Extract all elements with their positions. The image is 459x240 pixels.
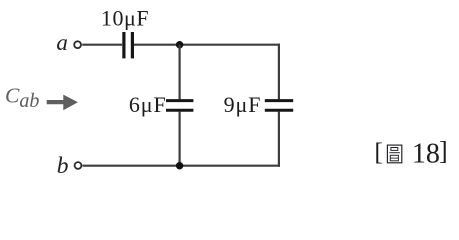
capacitor C2 6uF plates: [166, 101, 193, 111]
wire right branch lower: [278, 112, 280, 167]
terminal a: [74, 41, 81, 48]
capacitor C1 10uF plates: [124, 32, 132, 58]
svg-text:9μF: 9μF: [224, 92, 262, 117]
wire right branch upper: [278, 44, 280, 100]
svg-text:10μF: 10μF: [101, 5, 149, 30]
svg-text:]: ]: [439, 137, 448, 166]
terminal b: [75, 162, 82, 169]
node top junction: [176, 41, 183, 48]
svg-text:[: [: [374, 137, 383, 166]
wire middle branch upper: [179, 45, 181, 100]
wire a to C1: [82, 44, 122, 46]
wire bottom: [83, 165, 281, 167]
svg-text:6μF: 6μF: [129, 92, 167, 117]
node bottom junction: [176, 162, 183, 169]
svg-text:Cab: Cab: [5, 83, 39, 112]
figure caption hanzi (drawn): [387, 145, 401, 163]
svg-text:18: 18: [412, 139, 440, 170]
arrow Cab pointer: [47, 95, 78, 111]
svg-text:b: b: [57, 153, 69, 179]
svg-text:a: a: [56, 30, 68, 55]
wire middle branch lower: [179, 112, 181, 166]
wire C1 to top-right corner: [134, 44, 280, 46]
capacitor C3 9uF plates: [265, 101, 293, 111]
